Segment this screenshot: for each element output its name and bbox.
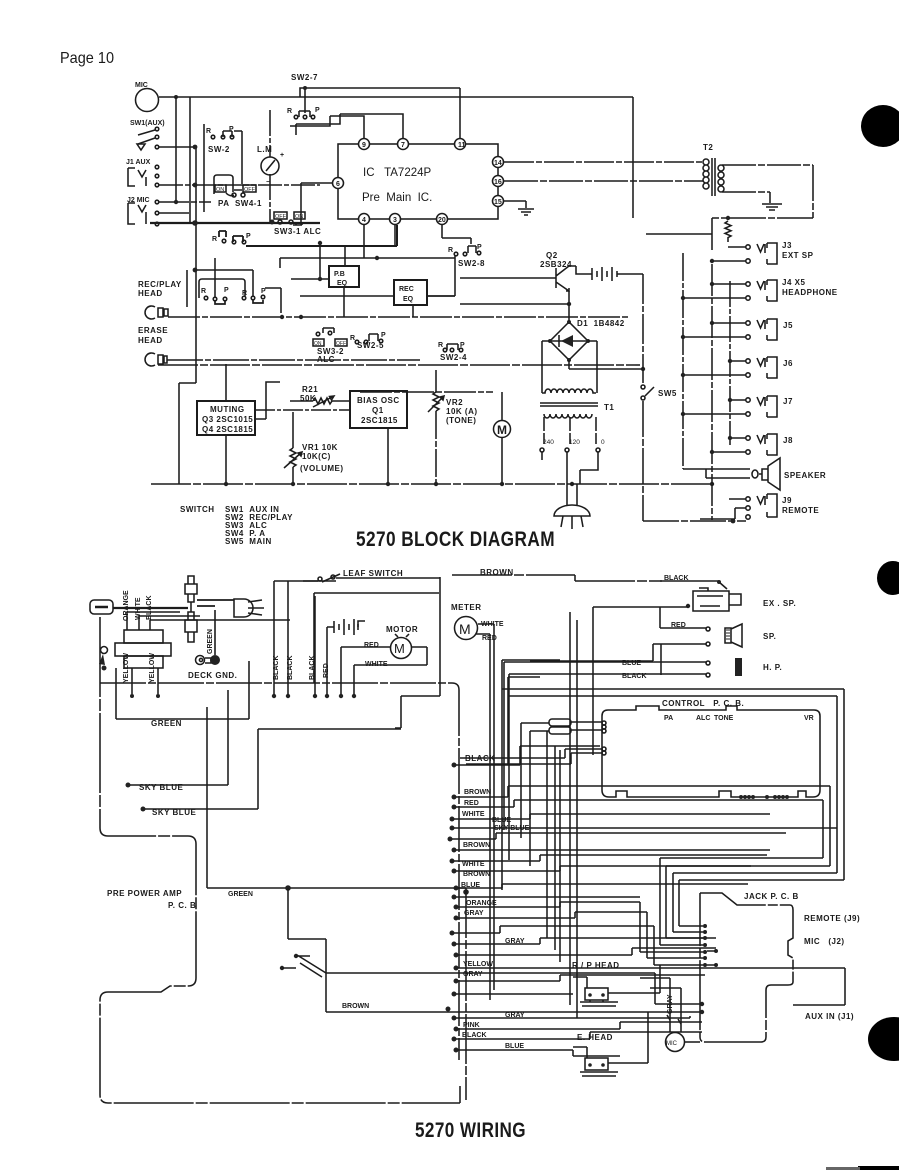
svg-text:BROWN: BROWN	[463, 871, 490, 878]
svg-text:PRE POWER AMP: PRE POWER AMP	[107, 889, 182, 898]
svg-text:P: P	[261, 288, 266, 295]
svg-text:SW5 MAIN: SW5 MAIN	[225, 537, 272, 546]
row gray	[454, 916, 459, 921]
fuse F1	[90, 600, 113, 614]
svg-text:J6: J6	[783, 359, 793, 368]
pin 15	[493, 196, 504, 207]
wire MIC output	[159, 88, 633, 218]
svg-text:Page 10: Page 10	[60, 50, 114, 67]
pin 3	[390, 214, 401, 225]
mounting lug	[101, 647, 108, 654]
svg-text:MIC: MIC	[666, 1041, 678, 1047]
svg-text:BLUE: BLUE	[492, 817, 511, 824]
svg-text:HEAD: HEAD	[138, 336, 163, 345]
svg-text:YELLOW: YELLOW	[123, 653, 130, 683]
row black2	[452, 1037, 457, 1042]
svg-text:(TONE): (TONE)	[446, 416, 476, 425]
battery pack	[334, 619, 358, 635]
wire pin16 to T2	[504, 180, 703, 182]
wire black pair down	[274, 581, 288, 695]
svg-text:SW3-1 ALC: SW3-1 ALC	[274, 227, 321, 236]
svg-text:GREEN: GREEN	[228, 891, 253, 898]
svg-text:R: R	[350, 335, 355, 342]
svg-text:GRAY: GRAY	[463, 971, 483, 978]
wire rec head row	[168, 316, 630, 318]
svg-text:OFF: OFF	[275, 214, 287, 220]
svg-text:P.B: P.B	[334, 271, 345, 278]
svg-text:J7: J7	[783, 397, 793, 406]
wire jack bus B	[646, 234, 712, 250]
svg-text:4: 4	[362, 217, 366, 224]
svg-text:5270 BLOCK DIAGRAM: 5270 BLOCK DIAGRAM	[356, 528, 555, 551]
row blue3	[454, 1048, 459, 1053]
svg-text:MUTING: MUTING	[210, 405, 245, 414]
svg-text:0: 0	[601, 439, 605, 446]
ground pin15	[518, 209, 534, 215]
svg-text:Q2: Q2	[546, 251, 558, 260]
svg-text:MIC (J2): MIC (J2)	[804, 937, 845, 946]
box REC EQ	[394, 280, 427, 305]
row brown	[452, 795, 457, 800]
svg-text:J5: J5	[783, 321, 793, 330]
scan blob top right	[861, 105, 899, 147]
pin 7	[398, 139, 409, 150]
scan bar bottom right	[858, 1166, 899, 1170]
svg-text:R: R	[212, 236, 217, 243]
svg-text:BROWN: BROWN	[463, 842, 490, 849]
svg-text:ON: ON	[216, 187, 224, 193]
wire pin14 to T2	[504, 161, 703, 163]
svg-text:SP.: SP.	[763, 632, 776, 641]
svg-text:YELLOW: YELLOW	[149, 653, 156, 683]
svg-text:ORANGE: ORANGE	[466, 900, 497, 907]
svg-text:ERASE: ERASE	[138, 326, 168, 335]
svg-text:H. P.: H. P.	[763, 663, 782, 672]
svg-text:J3: J3	[782, 241, 792, 250]
switch PA SW4-1 frame	[214, 175, 233, 194]
row blue2	[454, 886, 459, 891]
svg-text:R: R	[201, 288, 206, 295]
deck ground lug	[196, 656, 205, 665]
svg-text:REC: REC	[399, 286, 414, 293]
wire SW1 to bus	[159, 147, 196, 484]
wire tone row	[360, 391, 493, 393]
jack J3	[746, 243, 777, 264]
svg-text:R: R	[287, 108, 292, 115]
wire J1 row	[159, 184, 320, 186]
svg-text:MIC: MIC	[135, 82, 148, 89]
wire taps to plug	[542, 452, 598, 484]
svg-text:BLACK: BLACK	[465, 754, 496, 763]
svg-text:T1: T1	[604, 403, 614, 412]
ground T2	[762, 204, 782, 210]
svg-text:(VOLUME): (VOLUME)	[300, 464, 344, 473]
power plug P1	[567, 484, 577, 506]
svg-text:P: P	[381, 332, 386, 339]
svg-text:IC TA7224P: IC TA7224P	[363, 167, 432, 179]
svg-text:M: M	[459, 621, 471, 637]
wire bundle verticals	[502, 612, 577, 1018]
wire J2 ground row	[150, 222, 320, 224]
svg-text:P: P	[315, 107, 320, 114]
svg-text:OFF: OFF	[244, 187, 256, 193]
wire PB EQ stub	[320, 243, 344, 317]
svg-text:20: 20	[438, 217, 446, 224]
svg-text:T2: T2	[703, 143, 713, 152]
scan blob bottom right	[868, 1017, 899, 1061]
switch SW5	[641, 385, 645, 389]
svg-text:ON: ON	[295, 214, 303, 220]
svg-text:SW2-7: SW2-7	[291, 73, 318, 82]
row pink	[454, 1027, 459, 1032]
rows mid dots	[450, 931, 455, 936]
svg-text:RED: RED	[464, 800, 479, 807]
svg-text:LEAF SWITCH: LEAF SWITCH	[343, 569, 403, 578]
svg-text:9: 9	[362, 142, 366, 149]
svg-text:R: R	[206, 128, 211, 135]
svg-text:REMOTE: REMOTE	[782, 506, 819, 515]
switch SW3-2 ON/OFF	[313, 339, 324, 346]
svg-text:SWITCH: SWITCH	[180, 505, 215, 514]
jack J4	[746, 280, 777, 301]
svg-text:WHITE: WHITE	[462, 861, 485, 868]
svg-text:+: +	[280, 152, 284, 159]
svg-text:BROWN: BROWN	[464, 789, 491, 796]
svg-text:D1 1B4842: D1 1B4842	[577, 319, 625, 328]
jack J8	[746, 434, 777, 455]
svg-text:Q4 2SC1815: Q4 2SC1815	[202, 425, 253, 434]
wire pin20	[442, 225, 471, 244]
svg-text:SW1(AUX): SW1(AUX)	[130, 120, 165, 127]
svg-text:YELLOW: YELLOW	[463, 961, 493, 968]
box BIAS OSC Q1	[350, 391, 407, 428]
svg-text:14: 14	[494, 160, 502, 167]
svg-text:R: R	[438, 342, 443, 349]
wire main bottom bus	[151, 483, 714, 485]
microphone MIC	[136, 89, 159, 112]
svg-text:SW2-4: SW2-4	[440, 353, 467, 362]
wire J2 rows	[159, 202, 211, 213]
row white	[450, 817, 455, 822]
row red	[452, 805, 457, 810]
row yellow	[454, 966, 459, 971]
svg-text:BLACK: BLACK	[287, 656, 294, 681]
power transformer PT1	[124, 630, 163, 643]
svg-text:M: M	[394, 641, 405, 656]
svg-text:METER: METER	[451, 603, 482, 612]
svg-text:BLUE: BLUE	[622, 660, 641, 667]
box MUTING Q3 Q4	[197, 401, 255, 435]
svg-text:6: 6	[336, 181, 340, 188]
svg-text:BLACK: BLACK	[273, 656, 280, 681]
row brown3	[452, 869, 457, 874]
svg-text:VR: VR	[804, 715, 814, 722]
svg-text:120: 120	[569, 439, 580, 446]
speaker SP	[706, 469, 750, 478]
motor M block	[494, 421, 511, 438]
svg-text:J1 AUX: J1 AUX	[126, 159, 151, 166]
wire pin6	[301, 183, 332, 225]
svg-text:R / P HEAD: R / P HEAD	[572, 961, 620, 970]
wire switch to jack pcb	[326, 973, 702, 1004]
svg-text:EXT SP: EXT SP	[782, 251, 814, 260]
svg-text:BROWN: BROWN	[342, 1003, 369, 1010]
svg-text:EQ: EQ	[337, 280, 348, 287]
wire emitter down	[568, 291, 570, 322]
svg-text:TONE: TONE	[714, 715, 734, 722]
wire bias stubs	[255, 409, 350, 411]
wire battery bus down	[642, 274, 644, 383]
svg-text:DECK GND.: DECK GND.	[188, 671, 237, 680]
wire meter vertical	[269, 110, 271, 222]
wire pin9 stair	[290, 116, 364, 138]
jack pcb pins	[703, 924, 707, 928]
svg-text:P: P	[246, 233, 251, 240]
row orange	[454, 905, 459, 910]
jack J5	[746, 319, 777, 340]
wire REC EQ stubs	[300, 296, 455, 317]
svg-text:EQ: EQ	[403, 296, 414, 303]
wire sky blue 1	[126, 783, 131, 788]
svg-text:ALC: ALC	[696, 715, 710, 722]
svg-text:7: 7	[401, 142, 405, 149]
svg-text:SPEAKER: SPEAKER	[784, 471, 826, 480]
motor box outline	[314, 577, 440, 728]
IC U1 TA7224P body	[338, 144, 498, 219]
svg-text:GREEN: GREEN	[151, 719, 182, 728]
row 6	[448, 837, 453, 842]
wire bundle top horizontals	[502, 660, 844, 696]
svg-text:BLUE: BLUE	[505, 1043, 524, 1050]
svg-text:10K (A): 10K (A)	[446, 407, 478, 416]
svg-text:PA SW4-1: PA SW4-1	[218, 199, 262, 208]
svg-text:2SC1815: 2SC1815	[361, 416, 398, 425]
svg-text:PINK: PINK	[463, 1022, 480, 1029]
wire erase head rows	[167, 359, 420, 361]
wire muting stubs	[226, 364, 280, 484]
wire green box	[116, 661, 249, 719]
row 16	[452, 992, 457, 997]
wire pin15 to ground	[504, 201, 526, 208]
wire pin3	[345, 225, 395, 266]
pin 9	[359, 139, 370, 150]
jack J7	[746, 396, 777, 417]
svg-text:GRAY: GRAY	[464, 910, 484, 917]
AC plug	[234, 599, 253, 617]
box P.B EQ	[329, 266, 359, 287]
svg-text:R: R	[448, 247, 453, 254]
svg-text:HEADPHONE: HEADPHONE	[782, 288, 838, 297]
svg-text:SW2-8: SW2-8	[458, 259, 485, 268]
svg-text:HEAD: HEAD	[138, 289, 163, 298]
svg-text:P: P	[224, 287, 229, 294]
wire sky blue 2	[141, 807, 146, 812]
svg-text:SW-2: SW-2	[208, 145, 230, 154]
jack J9	[746, 497, 750, 501]
svg-text:GREEN: GREEN	[207, 629, 214, 654]
pin 16	[493, 176, 504, 187]
scan blob middle right	[877, 561, 899, 595]
pcb bottom pins	[739, 795, 743, 799]
svg-text:J4 X5: J4 X5	[782, 278, 805, 287]
svg-text:16: 16	[494, 179, 502, 186]
wire P.B EQ input	[291, 278, 330, 280]
svg-text:PA: PA	[664, 715, 673, 722]
pin 14	[493, 157, 504, 168]
pin 4	[359, 214, 370, 225]
pin 11	[455, 139, 466, 150]
jack J6	[746, 357, 777, 378]
resistor R jack feed	[725, 221, 731, 242]
svg-text:REMOTE (J9): REMOTE (J9)	[804, 914, 860, 923]
svg-text:BLACK: BLACK	[462, 1032, 487, 1039]
wire bridge to T1	[542, 341, 597, 393]
wire vertical to J2	[176, 97, 204, 223]
connector barrel pair	[185, 576, 197, 602]
svg-text:WHITE: WHITE	[462, 811, 485, 818]
svg-text:11: 11	[458, 142, 466, 149]
svg-text:J9: J9	[782, 496, 792, 505]
wire jack bus C	[729, 281, 731, 445]
switch mechanism	[294, 954, 298, 958]
wire pin4	[280, 225, 455, 268]
wire T2 secondary	[722, 165, 813, 203]
svg-text:EX . SP.: EX . SP.	[763, 599, 796, 608]
wire pin7 stair	[296, 114, 403, 138]
svg-text:3: 3	[393, 217, 397, 224]
row brown2	[452, 848, 457, 853]
row gray3	[446, 1007, 451, 1012]
svg-text:VR2: VR2	[446, 398, 463, 407]
svg-text:J8: J8	[783, 436, 793, 445]
svg-text:5270 WIRING: 5270 WIRING	[415, 1119, 526, 1142]
svg-text:P: P	[477, 244, 482, 251]
pin 20	[437, 214, 448, 225]
svg-text:R21: R21	[302, 385, 318, 394]
wire mic to jack pcb	[684, 1041, 700, 1043]
svg-text:RED: RED	[364, 642, 379, 649]
svg-text:M: M	[497, 423, 507, 437]
row white2	[450, 859, 455, 864]
svg-text:JACK P. C. B: JACK P. C. B	[744, 892, 799, 901]
svg-text:10K(C): 10K(C)	[302, 452, 331, 461]
svg-text:MOTOR: MOTOR	[386, 625, 418, 634]
wire right top loop	[712, 165, 813, 234]
svg-text:240: 240	[543, 439, 554, 446]
svg-text:VR1 10K: VR1 10K	[302, 443, 338, 452]
battery B1	[592, 267, 617, 281]
svg-text:Pre Main IC.: Pre Main IC.	[362, 192, 432, 204]
wire SW-2 to PA switch	[234, 131, 242, 184]
svg-text:AUX IN (J1): AUX IN (J1)	[805, 1012, 854, 1021]
label column row black	[452, 763, 457, 768]
svg-text:Q1: Q1	[372, 406, 384, 415]
switch SW3-1 ON/OFF	[274, 212, 287, 219]
svg-text:BIAS OSC: BIAS OSC	[357, 396, 400, 405]
wire green long	[207, 707, 466, 888]
svg-text:15: 15	[494, 199, 502, 206]
left outline pre power amp	[100, 617, 460, 1103]
wire jack bus A	[683, 253, 706, 469]
svg-text:SW5: SW5	[658, 389, 677, 398]
svg-text:P. C. B: P. C. B	[168, 901, 196, 910]
svg-text:Q3 2SC1015: Q3 2SC1015	[202, 415, 253, 424]
svg-text:ALC: ALC	[317, 355, 335, 364]
svg-text:E. HEAD: E. HEAD	[577, 1033, 613, 1042]
pcb left connector plugs	[549, 719, 571, 726]
wire main horizontal bus	[100, 683, 459, 1060]
svg-text:REC/PLAY: REC/PLAY	[138, 280, 182, 289]
pin 6	[333, 178, 344, 189]
wire SW3-1 to pin3 row	[246, 225, 397, 246]
